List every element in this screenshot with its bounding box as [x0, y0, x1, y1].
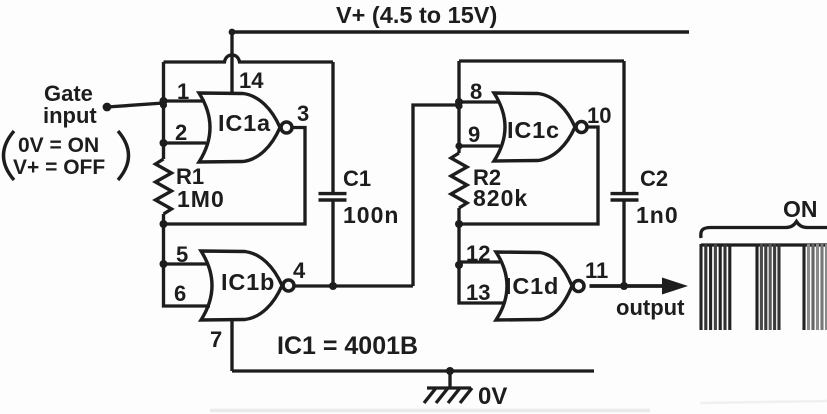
wire IC1b output up-feed to IC1c input	[413, 105, 459, 286]
svg-text:IC1d: IC1d	[505, 273, 559, 299]
pin 2 label	[175, 120, 187, 145]
pin 9 label	[468, 122, 480, 147]
ground	[424, 371, 472, 403]
junction R1 bottom / pin3 wire	[160, 220, 168, 228]
pin 12 label	[466, 241, 490, 266]
svg-text:output: output	[616, 295, 685, 320]
wire IC1b output line	[295, 284, 414, 287]
resistor R1	[156, 159, 172, 214]
wire gate input	[107, 103, 164, 107]
pin 14 label	[239, 68, 264, 93]
wire input node vertical	[162, 62, 165, 159]
wire top feedback line right	[459, 59, 624, 62]
junction ground stub	[446, 367, 454, 375]
svg-text:11: 11	[585, 258, 608, 283]
scan smudge artifact	[210, 401, 827, 411]
svg-text:0V = ON: 0V = ON	[18, 134, 99, 157]
op-amp IC1d NOR gate	[496, 252, 584, 320]
wire pin14 to V+ rail	[230, 31, 233, 95]
junction V+ rail / pin14	[229, 29, 236, 36]
svg-text:C1: C1	[343, 166, 371, 191]
junction pin12 node	[455, 261, 463, 269]
op-amp IC1c NOR gate	[494, 93, 587, 161]
junction pin2 node	[160, 139, 168, 147]
wire pin 5	[164, 262, 209, 265]
wire output with arrow	[590, 278, 689, 295]
pin 11 label	[585, 258, 608, 283]
svg-text:V+ = OFF: V+ = OFF	[13, 156, 105, 179]
junction pin9 node	[455, 142, 462, 149]
svg-text:V+ (4.5 to 15V): V+ (4.5 to 15V)	[336, 2, 497, 28]
V+ = OFF text	[13, 156, 105, 179]
wire pin 12	[459, 260, 500, 263]
Gate input text	[43, 81, 97, 128]
junction pin8 / feed	[455, 98, 463, 110]
svg-text:13: 13	[466, 280, 490, 305]
net V+ label	[336, 2, 497, 28]
pin 13 label	[466, 280, 490, 305]
svg-text:3: 3	[297, 101, 309, 126]
output label	[616, 295, 685, 320]
svg-text:C2: C2	[640, 166, 668, 191]
svg-text:820k: 820k	[473, 185, 528, 211]
wire pin 3 output down to R1 bottom	[164, 128, 306, 225]
capacitor C1 top wire	[331, 62, 334, 192]
pin 4 label	[293, 258, 306, 283]
ON label	[783, 196, 818, 222]
svg-text:input: input	[43, 103, 97, 128]
waveform burst 3	[804, 244, 827, 330]
junction R2 bottom / pin10 wire	[455, 220, 463, 228]
wire V+ supply rail	[231, 30, 689, 34]
capacitor C2 top wire	[622, 61, 625, 192]
junction pin1 / gate input	[160, 97, 168, 109]
capacitor C1	[319, 194, 347, 200]
0V = ON text	[18, 134, 99, 157]
0V label	[478, 383, 507, 410]
capacitor C1 bottom wire	[331, 202, 334, 287]
wire pin 8	[459, 100, 499, 103]
waveform burst 2	[757, 244, 779, 330]
pin 8 label	[470, 79, 482, 104]
svg-text:IC1a: IC1a	[218, 110, 271, 136]
pin 1 label	[177, 79, 189, 104]
node gate input terminal	[103, 103, 112, 112]
svg-text:14: 14	[239, 68, 264, 93]
R1 label	[176, 164, 204, 189]
pin 6 label	[174, 281, 186, 306]
wire 0V rail	[232, 369, 594, 372]
right parenthesis	[118, 131, 129, 180]
capacitor C2 bottom wire	[622, 202, 625, 287]
svg-text:IC1c: IC1c	[507, 117, 560, 143]
pin 5 label	[176, 242, 188, 267]
waveform top level line	[701, 243, 827, 246]
pin 10 label	[587, 103, 611, 128]
capacitor C2	[611, 194, 639, 200]
svg-text:7: 7	[210, 327, 222, 352]
left parenthesis	[4, 131, 15, 180]
C2 label	[640, 166, 668, 191]
svg-text:IC1 = 4001B: IC1 = 4001B	[277, 332, 418, 360]
wire R1 bottom to pin5/6 node	[164, 214, 211, 306]
wire IC1c input node vertical	[457, 61, 460, 153]
svg-text:9: 9	[468, 122, 480, 147]
wire pin 10 output down to R2 bottom	[459, 127, 598, 224]
pin 3 label	[297, 101, 309, 126]
op-amp IC1b NOR gate	[201, 251, 294, 320]
svg-text:2: 2	[175, 120, 187, 145]
IC1 = 4001B text	[277, 332, 418, 360]
op-amp IC1a NOR gate	[199, 93, 292, 162]
wire pin 2	[164, 141, 207, 144]
svg-text:10: 10	[587, 103, 611, 128]
svg-text:4: 4	[293, 258, 306, 283]
wire R2 bottom to pin12/13 node	[459, 208, 503, 303]
junction pin5 node	[160, 260, 168, 268]
wire top feedback line with hop over pin14	[164, 55, 334, 62]
C2 value 1n0	[636, 202, 679, 228]
resistor R2	[451, 153, 467, 208]
waveform burst 1	[701, 244, 730, 330]
wire pin 1	[164, 99, 206, 102]
R1 value 1M0	[177, 186, 225, 212]
junction C1 / output line	[329, 282, 337, 290]
C1 value 100n	[343, 202, 399, 228]
svg-text:0V: 0V	[478, 383, 507, 410]
R2 value 820k	[473, 185, 528, 211]
svg-text:ON: ON	[783, 196, 818, 222]
svg-text:1n0: 1n0	[636, 202, 679, 228]
C1 label	[343, 166, 371, 191]
wire pin 7 down	[230, 318, 233, 371]
pin 7 label	[210, 327, 222, 352]
svg-text:100n: 100n	[343, 202, 399, 228]
svg-text:IC1b: IC1b	[221, 269, 275, 295]
svg-text:6: 6	[174, 281, 186, 306]
brace over waveform	[701, 222, 827, 239]
wire pin 9	[459, 144, 500, 147]
junction C2 / output line	[620, 282, 628, 290]
svg-text:8: 8	[470, 79, 482, 104]
svg-text:1M0: 1M0	[177, 186, 225, 212]
R2 label	[473, 165, 501, 190]
